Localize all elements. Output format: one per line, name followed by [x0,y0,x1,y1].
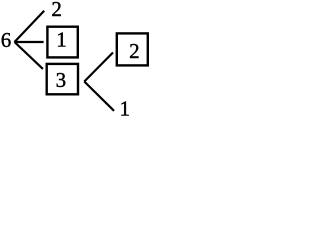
svg-text:1: 1 [119,96,130,119]
box node 3 [47,64,78,94]
box node 2 [117,33,148,65]
svg-text:2: 2 [129,39,140,63]
edge 6 to box 3 [15,42,43,69]
box node 1 [47,27,77,58]
edge 3 to box 2 [84,53,113,82]
edge 3 to leaf 1 [84,82,114,111]
svg-text:2: 2 [51,0,62,21]
svg-text:1: 1 [56,27,67,51]
edge 6 to box 1 [15,41,44,43]
edge 6 to leaf 2 [15,11,45,42]
svg-text:6: 6 [1,28,12,52]
svg-text:3: 3 [56,68,67,92]
